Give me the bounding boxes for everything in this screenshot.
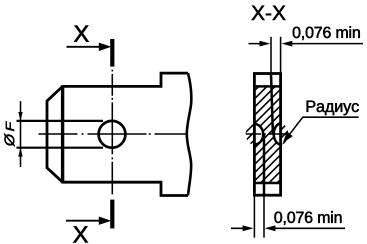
section centerline <box>246 133 287 135</box>
arrow OF top <box>18 112 22 121</box>
top dim text <box>293 26 360 40</box>
left radius half-disc <box>254 124 263 145</box>
radius leader <box>290 117 359 134</box>
section arrow top <box>67 46 101 48</box>
vertical centerline <box>111 70 113 195</box>
bottom dim text <box>274 211 341 225</box>
head-body junction line <box>61 85 64 183</box>
bottom dim arrow left <box>243 225 254 231</box>
top dimension line right part <box>292 43 363 45</box>
break line (wavy) <box>187 73 192 195</box>
horizontal centerline <box>39 133 189 135</box>
section plane stroke top <box>110 39 114 67</box>
body outline <box>63 73 188 195</box>
section plane stroke bottom <box>110 200 114 229</box>
section arrow bottom <box>66 220 100 222</box>
label OF <box>4 133 14 146</box>
bottom seam line <box>263 134 266 195</box>
bottom extension line right <box>263 197 265 238</box>
hatching <box>151 80 367 186</box>
head chamfers and left face <box>47 86 63 182</box>
top extension line right <box>280 37 282 72</box>
section outer rectangle <box>254 74 280 196</box>
bottom extension line left <box>253 197 255 238</box>
title X-X <box>252 6 286 20</box>
arrow OF bottom <box>18 148 22 157</box>
bottom band line <box>254 182 280 185</box>
hole tangent line top <box>17 120 104 122</box>
top seam line <box>271 74 273 135</box>
bottom dimension line left part <box>231 227 252 229</box>
hole tangent line bottom <box>17 147 104 149</box>
bottom dim arrow right <box>265 225 276 231</box>
radius label <box>307 101 359 116</box>
top extension line left <box>270 37 272 73</box>
label X top <box>74 26 89 42</box>
hole <box>99 121 126 148</box>
label X bottom <box>73 226 88 242</box>
top dim arrow right <box>282 41 293 47</box>
top band line <box>254 85 280 88</box>
top dimension line left part <box>249 43 269 45</box>
right radius half-disc <box>274 123 281 144</box>
radius leader arrowhead <box>283 132 293 143</box>
top dim arrow left <box>260 41 271 47</box>
bottom dimension line right part <box>274 227 345 229</box>
dimension line OF <box>20 101 22 167</box>
